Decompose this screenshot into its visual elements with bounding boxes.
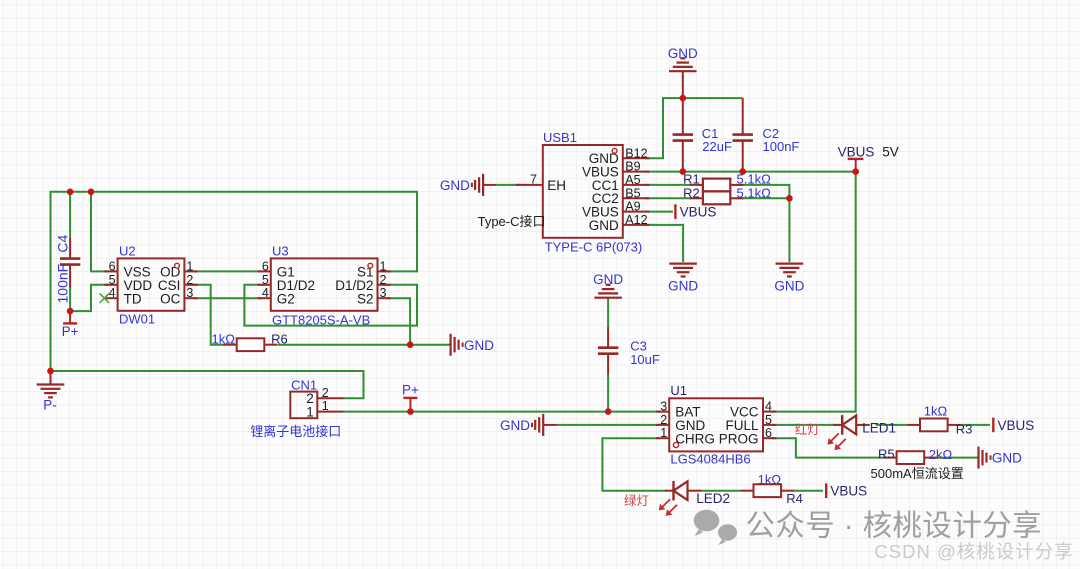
svg-text:VBUS: VBUS — [680, 205, 717, 220]
svg-text:6: 6 — [109, 259, 116, 273]
svg-text:CSDN @核桃设计分享: CSDN @核桃设计分享 — [874, 541, 1073, 562]
svg-text:3: 3 — [660, 400, 667, 414]
svg-text:R5: R5 — [878, 447, 895, 462]
svg-text:VBUS: VBUS — [998, 418, 1035, 433]
svg-text:U2: U2 — [119, 243, 136, 258]
svg-text:1: 1 — [186, 259, 193, 273]
svg-text:USB1: USB1 — [543, 130, 577, 145]
svg-text:5.1kΩ: 5.1kΩ — [737, 186, 772, 201]
svg-text:1kΩ: 1kΩ — [212, 331, 236, 346]
svg-text:B5: B5 — [625, 186, 640, 200]
svg-text:GND: GND — [500, 418, 530, 433]
svg-text:LGS4084HB6: LGS4084HB6 — [670, 452, 750, 467]
svg-text:4: 4 — [765, 400, 772, 414]
svg-text:R2: R2 — [683, 186, 700, 201]
svg-text:OC: OC — [160, 291, 181, 306]
svg-text:GND: GND — [464, 338, 494, 353]
svg-text:G2: G2 — [277, 291, 295, 306]
svg-text:R6: R6 — [271, 332, 288, 347]
svg-text:A5: A5 — [625, 173, 640, 187]
svg-text:U3: U3 — [272, 243, 289, 258]
svg-text:绿灯: 绿灯 — [624, 493, 649, 508]
svg-text:100nF: 100nF — [54, 264, 70, 304]
svg-text:2: 2 — [660, 413, 667, 427]
svg-text:5: 5 — [765, 413, 772, 427]
svg-text:GND: GND — [668, 46, 698, 61]
svg-text:DW01: DW01 — [119, 311, 155, 326]
svg-text:6: 6 — [262, 259, 269, 273]
svg-text:锂离子电池接口: 锂离子电池接口 — [250, 424, 341, 439]
svg-text:5V: 5V — [882, 145, 899, 160]
svg-text:2: 2 — [322, 386, 329, 400]
svg-text:公众号 · 核桃设计分享: 公众号 · 核桃设计分享 — [746, 510, 1043, 543]
svg-text:1: 1 — [322, 399, 329, 413]
svg-text:3: 3 — [380, 286, 387, 300]
svg-text:LED2: LED2 — [696, 491, 730, 506]
svg-text:GND: GND — [992, 451, 1022, 466]
svg-text:1kΩ: 1kΩ — [758, 472, 782, 487]
svg-text:10uF: 10uF — [630, 352, 660, 367]
svg-text:1kΩ: 1kΩ — [924, 404, 948, 419]
svg-text:U1: U1 — [670, 383, 687, 398]
svg-text:2: 2 — [186, 273, 193, 287]
svg-text:500mA恒流设置: 500mA恒流设置 — [871, 466, 964, 481]
svg-text:B9: B9 — [625, 160, 640, 174]
svg-text:5: 5 — [262, 273, 269, 287]
svg-text:22uF: 22uF — [702, 139, 732, 154]
svg-text:6: 6 — [765, 426, 772, 440]
svg-text:A9: A9 — [625, 200, 640, 214]
svg-text:1: 1 — [380, 259, 387, 273]
svg-text:GTT8205S-A-VB: GTT8205S-A-VB — [272, 313, 370, 328]
svg-text:PROG: PROG — [719, 431, 759, 446]
svg-text:GND: GND — [440, 178, 470, 193]
svg-text:1: 1 — [306, 405, 314, 420]
svg-text:R4: R4 — [786, 491, 803, 506]
svg-text:100nF: 100nF — [763, 139, 800, 154]
svg-text:3: 3 — [186, 286, 193, 300]
svg-text:5: 5 — [109, 273, 116, 287]
svg-text:P+: P+ — [402, 383, 419, 398]
svg-text:GND: GND — [668, 279, 698, 294]
svg-text:4: 4 — [109, 286, 116, 300]
svg-text:VBUS: VBUS — [830, 484, 867, 499]
svg-text:TD: TD — [124, 291, 142, 306]
svg-text:A12: A12 — [625, 213, 647, 227]
svg-text:2kΩ: 2kΩ — [929, 447, 953, 462]
svg-text:Type-C接口: Type-C接口 — [478, 214, 546, 229]
svg-text:P-: P- — [43, 398, 57, 413]
svg-text:1: 1 — [660, 426, 667, 440]
svg-text:EH: EH — [547, 178, 566, 193]
svg-text:R3: R3 — [956, 422, 973, 437]
svg-text:GND: GND — [589, 218, 619, 233]
svg-text:GND: GND — [593, 272, 623, 287]
svg-text:B12: B12 — [625, 146, 647, 160]
svg-text:2: 2 — [380, 273, 387, 287]
svg-text:CN1: CN1 — [291, 377, 317, 392]
svg-text:TYPE-C 6P(073): TYPE-C 6P(073) — [545, 240, 643, 255]
svg-text:红灯: 红灯 — [795, 422, 820, 437]
svg-text:7: 7 — [530, 173, 537, 187]
svg-text:GND: GND — [774, 279, 804, 294]
svg-text:CHRG: CHRG — [675, 431, 715, 446]
svg-text:LED1: LED1 — [862, 421, 896, 436]
svg-text:S2: S2 — [357, 291, 374, 306]
svg-text:4: 4 — [262, 286, 269, 300]
svg-text:C4: C4 — [54, 234, 70, 252]
svg-text:P+: P+ — [62, 324, 79, 339]
svg-text:VBUS: VBUS — [838, 144, 875, 159]
svg-text:R1: R1 — [683, 172, 700, 187]
